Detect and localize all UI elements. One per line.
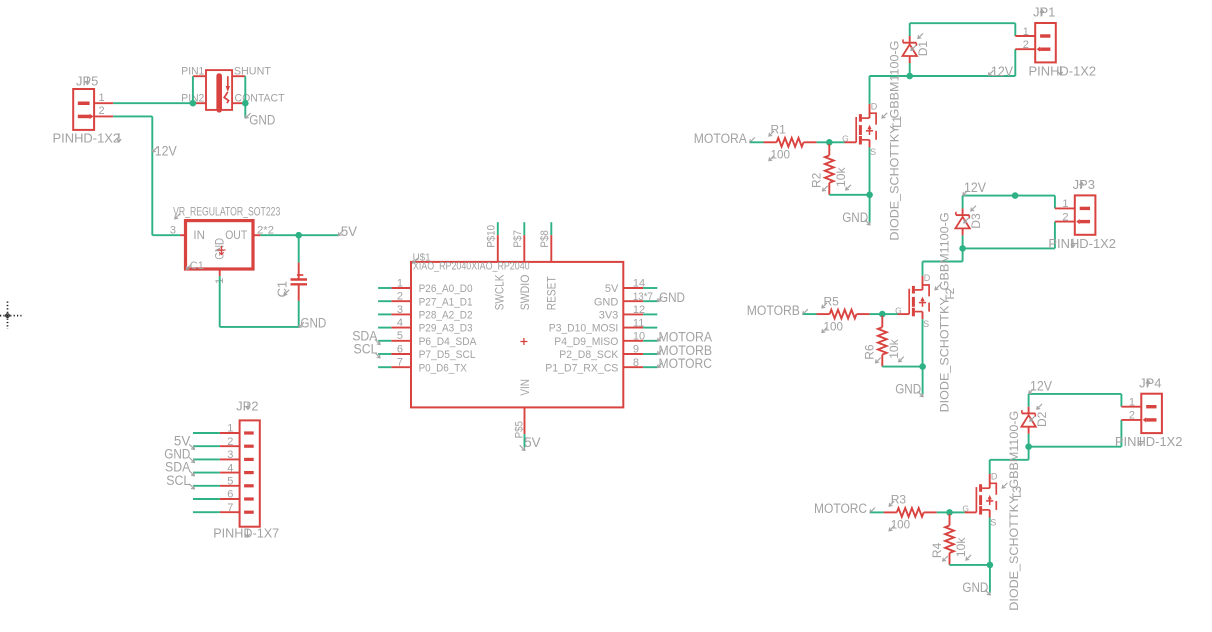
MCU rotated label SWCLK [495,274,507,310]
svg-text:GND: GND [842,210,868,225]
svg-text:1: 1 [1129,397,1135,409]
svg-text:P4_D9_MISO: P4_D9_MISO [554,336,618,348]
JP2 pin 6 wire stub [193,498,220,500]
wire C1 to GND [298,301,300,327]
junction gate (MOTORC) [946,509,953,516]
transistor T2 [898,276,930,320]
label SCL (MCU) [354,342,381,358]
label XIAO_RP2040XIAO_RP2040 [413,258,530,273]
MCU pin name 5V [605,283,619,295]
pin name CONTACT [235,93,285,105]
svg-text:3: 3 [397,304,403,316]
svg-text:OUT: OUT [225,230,247,242]
sheet origin cross [0,302,22,330]
pin number 2 (JP4) [1129,410,1135,422]
MCU pin name P26_A0_D0 [419,283,473,295]
resistor R2 10k [825,144,834,195]
svg-text:100: 100 [824,319,844,333]
label GND (JP2) [164,447,194,463]
MCU left pin 1 [378,287,411,289]
svg-text:6: 6 [227,489,233,501]
wire CONTACT to GND stub [244,103,246,118]
wire junction to gate [882,313,897,315]
wire JP5.1 to PIN2 [113,102,193,104]
label 100 (R3) [889,518,910,532]
MCU pin name P4_D9_MISO [554,336,618,348]
pin label IN [193,230,205,242]
MCU top pin name P$7 [512,230,524,248]
pin name SHUNT [234,66,271,78]
junction source/GND (MOTORB) [919,363,926,370]
label D2 (rotated) [1030,404,1049,427]
MCU rotated label VIN [520,379,532,396]
junction at PIN2 [190,100,197,107]
svg-text:R4: R4 [930,542,944,558]
svg-text:D1: D1 [916,41,930,57]
svg-text:SCL: SCL [354,342,378,357]
svg-text:P$10: P$10 [486,225,498,248]
svg-text:P27_A1_D1: P27_A1_D1 [419,296,473,308]
svg-text:7: 7 [397,357,403,369]
junction source/GND (MOTORC) [987,562,994,569]
svg-text:GND: GND [594,296,619,308]
MCU right pin number 8 [633,357,639,369]
svg-text:MOTORC: MOTORC [659,356,713,371]
svg-text:13*7: 13*7 [633,291,653,303]
JP2 pin number 5 [227,476,233,488]
wire R4 to source junction [950,564,990,566]
svg-text:P1_D7_RX_CS: P1_D7_RX_CS [545,362,618,374]
svg-text:G: G [842,134,849,144]
svg-text:SHUNT: SHUNT [234,66,271,78]
label SCL (JP2) [166,473,194,489]
svg-text:S: S [990,517,996,527]
label C1 (rotated) [275,281,290,298]
MCU right pin number 12 [633,304,645,316]
pin number 1 (JP1) [1023,26,1029,38]
resistor R1 100 [764,138,817,147]
MCU origin cross [520,338,527,345]
pin label S (T2) [923,319,929,329]
MCU left pin 3 [378,313,411,315]
net label MOTORB [747,303,808,318]
svg-text:DIODE_SCHOTTKY_GBBM1100-G: DIODE_SCHOTTKY_GBBM1100-G [938,212,952,412]
label 5V (MCU bottom) [520,435,541,450]
svg-text:GND: GND [249,112,275,127]
svg-text:100: 100 [891,518,911,532]
label D3 (rotated) [964,206,983,229]
JP2 pin number 3 [227,449,233,461]
jumper SH1 outline [206,70,232,113]
svg-text:5V: 5V [605,283,619,295]
net label MOTORC [814,501,875,516]
svg-text:2: 2 [227,436,233,448]
svg-text:3: 3 [227,449,233,461]
svg-text:14: 14 [633,278,645,290]
label R5 [822,294,839,308]
wire OUT to 5V [260,234,338,236]
pin name PIN2 [181,93,204,105]
svg-text:1: 1 [227,423,233,435]
MCU left pin number 3 [397,304,403,316]
pin label GND (rotated) [214,238,226,260]
MCU right pin number 14 [633,278,645,290]
svg-text:JP2: JP2 [236,399,258,414]
svg-text:S: S [923,319,929,329]
wire top 12V rail (JP4) [1029,394,1122,447]
MCU pin name P27_A1_D1 [419,296,473,308]
MCU left pin number 6 [397,343,403,355]
svg-text:P$7: P$7 [512,230,524,248]
svg-text:2: 2 [1062,211,1068,223]
wire junction to gate [829,141,844,143]
svg-text:5V: 5V [341,224,357,239]
svg-text:P28_A2_D2: P28_A2_D2 [419,310,473,322]
label 100 (R5) [822,319,843,333]
svg-text:5V: 5V [524,435,540,450]
pin number 2 (JP1) [1023,39,1029,51]
pin number 1 (JP5) [99,92,105,104]
connector JP2 (PINHD-1X7) [220,420,260,526]
pin number 2*2 [257,225,274,237]
label 12V (JP5 net) [152,144,176,159]
JP2 pin number 7 [227,502,233,514]
wire source down [869,147,871,194]
net label 12V (JP1) [988,64,1013,79]
label 100 (R1) [769,148,790,162]
svg-text:3V3: 3V3 [599,310,619,322]
svg-text:VIN: VIN [520,379,532,396]
label MOTORC (MCU) [657,356,712,371]
pin lead PIN1 [193,75,206,77]
svg-text:12V: 12V [1030,378,1052,393]
svg-text:MOTORB: MOTORB [747,303,800,318]
junction source/GND (MOTORA) [866,192,873,199]
svg-text:PINHD-1X2: PINHD-1X2 [53,131,121,146]
resistor R3 100 [884,508,937,517]
MCU right pin 9 [623,353,657,355]
label GND (MOTORC) [962,580,990,595]
diode D3 (schottky) [955,196,969,249]
JP2 pin number 6 [227,489,233,501]
svg-text:2: 2 [397,291,403,303]
wire source down [922,319,924,366]
svg-text:P26_A0_D0: P26_A0_D0 [419,283,473,295]
svg-text:SCL: SCL [166,473,190,488]
wire GND stub (MOTORC) [989,565,991,593]
svg-text:10k: 10k [834,167,848,187]
pin label G (T1) [842,134,849,144]
wire drain to 12V rail (MOTORC) [990,447,1029,474]
label PINHD-1X2 (JP3) [1048,236,1116,251]
MCU top pin P$10 [497,222,499,262]
label SDA (MCU) [352,328,380,344]
label T1 (rotated) [882,113,904,130]
pin number 2 (JP3) [1062,211,1068,223]
wire SHUNT vertical [244,76,246,103]
pin number 1 (JP3) [1062,198,1068,210]
label DIODE_SCHOTTKY_GBBM1100-G (D1) [888,41,902,241]
label VR_REGULATOR_SOT223 [173,205,280,219]
svg-text:8: 8 [633,357,639,369]
resistor R4 10k [945,514,954,565]
pin number 1 (JP4) [1129,397,1135,409]
contact switch symbol [224,76,230,103]
MCU left pin 7 [378,366,411,368]
MCU left pin number 7 [397,357,403,369]
MCU top pin name P$8 [539,230,551,248]
svg-text:RESET: RESET [546,276,558,310]
svg-text:12V: 12V [155,144,177,159]
junction on top rail (JP3) [1012,192,1019,199]
pin lead PIN2 [193,102,206,104]
label 10k (R2, rotated) [834,167,851,190]
label PINHD-1X2 (JP5) [53,131,122,146]
capacitor C1 [291,263,308,301]
transistor T1 [845,104,877,147]
JP2 pin 3 wire stub [193,458,220,460]
MCU right pin 14 [623,287,657,289]
junction diode D2 [1025,443,1032,450]
pin label D (T1) [871,101,878,111]
svg-text:2: 2 [1023,39,1029,51]
wire GND stub (MOTORB) [922,367,924,395]
MCU left pin number 5 [397,330,403,342]
transistor T3 [965,474,997,518]
svg-text:12V: 12V [964,180,986,195]
svg-text:PIN1: PIN1 [181,66,204,78]
svg-text:100: 100 [771,148,791,162]
wire junction to gate [950,511,965,513]
svg-text:P2_D8_SCK: P2_D8_SCK [559,349,619,361]
pin label OUT [225,230,247,242]
label DIODE_SCHOTTKY_GBBM1100-G (D2) [1007,411,1021,611]
wire 5V to C1 [298,235,300,262]
MCU U$1 XIAO_RP2040 body [411,262,623,408]
MCU left pin 4 [378,327,411,329]
svg-text:PINHD-1X2: PINHD-1X2 [1029,63,1097,78]
svg-text:D: D [871,101,878,111]
svg-text:1: 1 [397,277,403,289]
svg-text:1: 1 [1062,198,1068,210]
JP2 pin number 2 [227,436,233,448]
net label 12V (JP4) [1029,378,1052,393]
svg-text:MOTORA: MOTORA [694,131,747,146]
wire R1 to gate junction [817,141,830,143]
resistor R6 10k [878,316,887,367]
connector JP3 (PINHD-1X2) [1055,195,1096,234]
label GND (regulator) [299,316,327,331]
label JP4 [1139,375,1161,390]
pin label S (T1) [870,147,876,157]
svg-text:SWCLK: SWCLK [495,274,507,310]
label MOTORA (MCU) [657,330,712,345]
svg-text:R3: R3 [891,493,907,507]
junction 5V / C1 [295,232,302,239]
MCU pin name P1_D7_RX_CS [545,362,618,374]
pin label G (T3) [962,504,969,514]
connector JP4 (PINHD-1X2) [1121,394,1162,433]
pin label G (T2) [895,305,902,315]
net label MOTORA [694,131,755,146]
svg-text:7: 7 [227,502,233,514]
label R4 (rotated) [930,542,948,561]
wire lower 12V rail (MOTORC) [1029,446,1122,448]
pin label D (T3) [991,472,998,482]
MCU left pin 5 [378,340,411,342]
JP2 pin 1 wire stub [193,432,220,434]
pin lead CONTACT [232,102,245,104]
svg-text:R1: R1 [771,123,787,137]
label GND (MOTORA) [842,210,870,225]
pin label D (T2) [924,273,931,283]
label PINHD-1X7 (JP2) [213,526,279,541]
svg-text:R2: R2 [810,172,824,188]
svg-text:PINHD-1X2: PINHD-1X2 [1048,236,1116,251]
label PINHD-1X2 (JP4) [1115,434,1183,449]
MCU left pin number 4 [397,317,403,329]
svg-text:1: 1 [1023,26,1029,38]
MCU right pin 10 [623,340,657,342]
svg-text:4: 4 [227,462,233,474]
svg-text:D2: D2 [1035,411,1049,427]
svg-text:GND: GND [659,290,685,305]
MCU rotated label RESET [546,276,558,310]
svg-text:11: 11 [633,317,644,329]
wire top 12V rail (JP3) [963,196,1055,249]
label 10k (R4, rotated) [954,537,971,560]
label R2 (rotated) [810,172,828,191]
MCU pin name P2_D8_SCK [559,349,619,361]
MCU left pin 2 [378,300,411,302]
svg-text:P$8: P$8 [539,230,551,248]
MCU rotated label SWDIO [520,275,532,311]
MCU bottom pin P$5 [524,407,526,447]
diode D2 (schottky) [1021,394,1035,447]
wire JP5.2 net 12V [113,116,180,235]
svg-text:10k: 10k [887,338,901,358]
junction diode D1 [906,73,913,80]
MCU right pin 11 [623,327,657,329]
wire MOTORB to R5 [803,313,816,315]
junction at CONTACT [242,100,249,107]
wire GND stub (MOTORA) [869,195,871,223]
JP2 pin number 4 [227,462,233,474]
label JP1 [1033,5,1055,20]
regulator VR_REGULATOR_SOT223 [180,221,260,277]
regulator origin cross [218,246,226,255]
wire MOTORA to R1 [750,141,763,143]
svg-text:2: 2 [99,105,105,117]
pin lead SHUNT [232,75,245,77]
label R3 [889,493,906,507]
MCU pin name P7_D5_SCL [419,349,476,361]
pin name PIN1 [181,66,204,78]
junction diode D3 [959,245,966,252]
label U$1 [413,252,431,264]
svg-text:12V: 12V [991,64,1013,79]
label R6 (rotated) [863,344,881,363]
label GND (MCU right) [657,290,685,305]
label 5V (regulator out) [338,224,357,239]
wire lower 12V rail (MOTORB) [963,247,1055,249]
svg-text:GND: GND [962,580,988,595]
wire R5 to gate junction [870,313,883,315]
svg-text:R6: R6 [863,344,877,360]
resistor R5 100 [817,310,870,319]
svg-text:DIODE_SCHOTTKY_GBBM1100-G: DIODE_SCHOTTKY_GBBM1100-G [1007,411,1021,611]
svg-text:P29_A3_D3: P29_A3_D3 [419,323,473,335]
wire PIN1 vertical [192,76,194,103]
wire regulator GND return [220,276,299,327]
junction gate (MOTORB) [879,311,886,318]
MCU right pin 12 [623,313,657,315]
label JP3 [1073,177,1095,192]
svg-text:GND: GND [214,238,226,260]
svg-text:P3_D10_MOSI: P3_D10_MOSI [549,323,619,335]
svg-text:SWDIO: SWDIO [520,275,532,311]
svg-text:R5: R5 [824,294,840,308]
svg-text:GND: GND [300,316,326,331]
wire MOTORC to R3 [871,511,884,513]
svg-text:4: 4 [397,317,403,329]
MCU pin name 3V3 [599,310,619,322]
JP2 pin number 1 [227,423,233,435]
svg-text:6: 6 [397,343,403,355]
MCU right pin number 10 [633,331,645,343]
MCU top pin P$8 [550,222,552,262]
label JP5 [76,74,98,89]
label SDA (JP2) [165,460,194,476]
label 10k (R6, rotated) [887,338,904,361]
MCU top pin P$7 [523,222,525,262]
MCU pin name P6_D4_SDA [419,336,477,348]
connector JP1 (PINHD-1X2) [1015,23,1055,62]
pin number 1 (rotated) [214,278,226,284]
svg-text:3: 3 [170,225,176,237]
svg-text:P6_D4_SDA: P6_D4_SDA [419,336,477,348]
svg-text:G: G [895,305,902,315]
MCU pin name P3_D10_MOSI [549,323,619,335]
label R1 [769,123,786,137]
svg-text:PINHD-1X2: PINHD-1X2 [1115,434,1183,449]
svg-text:12: 12 [633,304,645,316]
wire R2 to source junction [829,194,869,196]
MCU pin name GND [594,296,619,308]
label DIODE_SCHOTTKY_GBBM1100-G (D3) [938,212,952,412]
MCU pin name P28_A2_D2 [419,310,473,322]
wire R3 to gate junction [937,511,950,513]
wire source down [989,518,991,565]
svg-text:P0_D6_TX: P0_D6_TX [419,362,468,374]
MCU right pin number 9 [633,344,639,356]
svg-text:C1: C1 [190,260,204,272]
pin label S (T3) [990,517,996,527]
svg-text:D: D [924,273,931,283]
svg-text:10: 10 [633,331,645,343]
svg-text:P7_D5_SCL: P7_D5_SCL [419,349,476,361]
label GND (contact) [245,112,275,127]
svg-text:9: 9 [633,344,639,356]
svg-text:5: 5 [227,476,233,488]
svg-text:MOTORC: MOTORC [814,501,867,516]
label C1 (by regulator) [186,260,204,272]
label PINHD-1X2 (JP1) [1029,63,1097,78]
svg-text:PINHD-1X7: PINHD-1X7 [213,526,279,541]
JP2 pin 2 wire stub [193,445,220,447]
wire lower 12V rail (MOTORA) [910,75,1016,77]
MCU pin name P0_D6_TX [419,362,468,374]
